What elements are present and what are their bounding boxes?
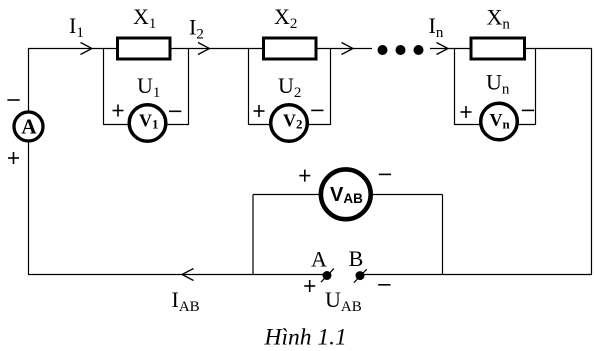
ellipsis dot 2 xyxy=(396,45,406,55)
svg-text:Hình 1.1: Hình 1.1 xyxy=(264,325,347,351)
wire left vertical through ammeter xyxy=(28,48,30,274)
wire top segment X1 to X2 xyxy=(171,48,263,50)
arrow In before Xn xyxy=(437,43,449,55)
ammeter plus sign xyxy=(8,157,19,159)
wire bottom segment terminal B to right corner xyxy=(360,274,592,276)
resistor X2 xyxy=(264,38,317,59)
svg-text:B: B xyxy=(349,246,364,271)
wire V2 loop right vertical xyxy=(330,49,332,126)
Vn plus sign xyxy=(461,111,472,113)
wire Vn loop bottom xyxy=(455,124,536,126)
svg-text:A: A xyxy=(311,246,327,271)
voltmeter VAB xyxy=(321,169,371,219)
arrow I1 xyxy=(81,43,93,55)
wire V1 loop right vertical xyxy=(188,49,190,126)
wire V1 loop left vertical xyxy=(103,49,105,126)
wire V1 loop bottom xyxy=(104,124,189,126)
resistor X1 xyxy=(118,38,171,59)
V1 minus sign xyxy=(169,110,181,112)
wire top segment X2 to ellipsis gap xyxy=(316,48,372,50)
wire top segment ellipsis gap to Xn xyxy=(430,48,470,50)
V2 minus sign xyxy=(311,109,323,111)
wire Vn loop left vertical xyxy=(454,49,456,126)
node A terminal slash xyxy=(321,269,334,283)
ellipsis dot 1 xyxy=(378,45,388,55)
V1 plus sign xyxy=(113,110,124,112)
svg-text:A: A xyxy=(21,115,37,139)
terminal B minus sign xyxy=(378,284,390,286)
wire V2 loop left vertical xyxy=(248,49,250,126)
wire right vertical xyxy=(591,48,593,275)
VAB plus sign xyxy=(299,175,310,177)
node B terminal slash xyxy=(354,269,367,283)
arrow after X2 xyxy=(342,43,354,55)
node A terminal dot xyxy=(323,271,332,280)
wire VAB loop left vertical xyxy=(252,195,254,275)
voltmeter Vn xyxy=(481,103,518,140)
ammeter A xyxy=(14,112,43,141)
voltmeter V2 xyxy=(271,105,308,142)
wire VAB loop horizontal xyxy=(253,194,443,196)
ammeter minus sign xyxy=(7,99,19,101)
arrow I2 xyxy=(198,43,210,55)
wire Vn loop right vertical xyxy=(535,49,537,126)
V2 plus sign xyxy=(254,110,265,112)
Vn minus sign xyxy=(522,109,534,111)
terminal A plus sign xyxy=(304,285,315,287)
voltmeter V1 xyxy=(129,105,166,142)
wire top segment from left corner to X1 xyxy=(29,48,118,50)
wire VAB loop right vertical xyxy=(442,195,444,275)
wire top segment Xn to right corner xyxy=(525,48,592,50)
resistor Xn xyxy=(471,38,525,59)
VAB minus sign xyxy=(379,173,391,175)
ellipsis dot 3 xyxy=(414,45,424,55)
node B terminal dot xyxy=(356,271,365,280)
wire bottom segment left corner to terminal A xyxy=(28,274,327,276)
arrow IAB on bottom wire xyxy=(182,269,194,281)
wire V2 loop bottom xyxy=(249,124,331,126)
